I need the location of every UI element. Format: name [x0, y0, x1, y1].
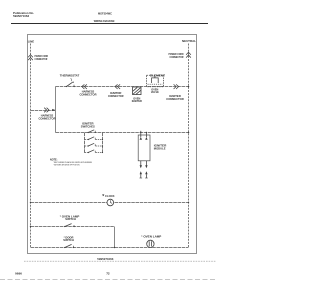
svg-text:SWITCH: SWITCH [63, 238, 74, 242]
ignitor connector on oven wire [115, 84, 120, 89]
igniter module pin 1 [140, 131, 142, 140]
wire oven circuit horizontal [56, 86, 189, 88]
igniter switch 2 [85, 137, 104, 140]
oven valve dashed box [147, 74, 166, 94]
svg-text:72: 72 [106, 272, 110, 276]
igniter switch 3 [85, 143, 104, 146]
svg-text:0696: 0696 [15, 272, 22, 276]
header publication text [13, 11, 34, 18]
diagram frame [28, 35, 197, 254]
svg-text:* OVEN LAMP: * OVEN LAMP [141, 235, 161, 239]
wire lamp branch vertical [114, 227, 116, 248]
svg-text:* FIRST BURNER ON EACH SIDE IG: * FIRST BURNER ON EACH SIDE IGNITES BOTH… [53, 161, 92, 164]
title WIRING DIAGRAM [94, 19, 115, 23]
svg-text:WIRING DIAGRAM: WIRING DIAGRAM [94, 19, 115, 23]
svg-text:NOTE:: NOTE: [50, 158, 58, 161]
power cord connector left [28, 55, 33, 60]
igniter module box [138, 135, 150, 161]
junction clock wire left [30, 202, 31, 203]
harness connector branch wire [31, 110, 56, 112]
oven lamp [141, 235, 161, 248]
wire burner circuit horizontal [56, 132, 189, 134]
igniter module label [154, 143, 167, 150]
harness connector on oven wire [82, 84, 87, 89]
svg-text:CONNECTOR: CONNECTOR [39, 117, 56, 121]
svg-text:* SWITCHES SHOWN IN OFF POSITI: * SWITCHES SHOWN IN OFF POSITION [53, 165, 80, 167]
clock motor [107, 199, 114, 206]
svg-text:MODULE: MODULE [154, 146, 166, 150]
svg-text:CLOCK: CLOCK [105, 194, 115, 198]
oven lamp switch [60, 214, 80, 227]
footer dashed separator [24, 260, 216, 262]
spark electrode 1 [140, 171, 143, 178]
junction lamp branch bottom [114, 247, 115, 248]
svg-text:IGNITER: IGNITER [132, 100, 142, 103]
svg-text:CONNECTOR: CONNECTOR [80, 93, 97, 97]
electrode lead 1 [140, 161, 142, 168]
svg-text:THERMOSTAT: THERMOSTAT [60, 74, 80, 78]
igniter switches label [81, 122, 95, 129]
svg-text:MGF354WC: MGF354WC [98, 12, 113, 16]
wire clock horizontal [31, 202, 189, 204]
svg-text:SWITCH: SWITCH [65, 217, 76, 221]
oven igniter [132, 87, 142, 103]
note block [50, 158, 92, 166]
thermostat [60, 74, 80, 88]
bottom faint scan dashes [0, 279, 217, 281]
svg-text:VALVE: VALVE [151, 91, 159, 94]
harness connector left symbol [44, 108, 49, 113]
svg-text:CONNECTOR: CONNECTOR [170, 55, 184, 59]
electrode lead 2 [145, 161, 147, 168]
svg-text:LINE: LINE [28, 39, 35, 43]
svg-text:NEUTRAL: NEUTRAL [182, 39, 196, 43]
junction burner wire to neutral [188, 132, 190, 134]
igniter connector right [174, 84, 179, 89]
door switch [63, 235, 74, 248]
igniter switch 4 [85, 150, 104, 153]
wire left L1 vertical [30, 44, 32, 248]
igniter module pin 2 [145, 132, 147, 140]
junction lamp switch wire left [30, 226, 31, 227]
svg-text:SWITCHES: SWITCHES [81, 124, 95, 128]
junction clock wire right [188, 202, 189, 203]
header model number [98, 12, 113, 16]
spark electrode 2 [145, 171, 148, 178]
svg-text:5995271063: 5995271063 [13, 14, 29, 18]
wire bottom horizontal [31, 247, 189, 249]
svg-text:CONNECTOR: CONNECTOR [166, 97, 184, 101]
power cord connector right [186, 52, 191, 57]
oven lamp switch wire [31, 226, 115, 228]
header rule [11, 23, 208, 25]
clock label [102, 194, 114, 198]
svg-text:CONNECTOR: CONNECTOR [108, 94, 124, 98]
igniter switches ladder rails [85, 133, 103, 154]
wire vertical drop from oven circuit [55, 87, 57, 133]
wire right neutral vertical [188, 44, 190, 248]
junction oven wire to neutral [188, 86, 190, 88]
svg-text:5995271063: 5995271063 [97, 257, 113, 261]
igniter switch 1 [88, 130, 96, 133]
svg-text:CONNECTOR: CONNECTOR [35, 57, 48, 61]
